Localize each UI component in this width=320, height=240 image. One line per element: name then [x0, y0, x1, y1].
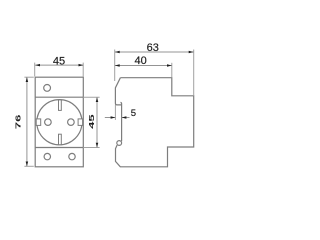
dimension line 76 [26, 77, 28, 166]
arrow 40 left [115, 64, 120, 67]
svg-text:63: 63 [147, 42, 159, 54]
arrow 45right up [96, 97, 99, 102]
side view front face upper edge [115, 78, 121, 105]
arrow 5 pointing right [111, 116, 116, 119]
socket recess circle [37, 100, 82, 145]
bottom terminal hole right [69, 153, 75, 159]
extension line 45top right [82, 63, 84, 77]
arrow 76 down [26, 162, 29, 167]
arrow 5 pointing left [122, 116, 127, 119]
earth slot top [59, 100, 62, 111]
extension line 40 right [171, 63, 173, 78]
dimension line 63 [115, 51, 194, 53]
bottom terminal hole left [44, 153, 50, 159]
arrow 63 right [189, 51, 194, 54]
side notch right [78, 119, 83, 126]
extension line 45top left [34, 63, 36, 77]
svg-text:76: 76 [15, 114, 22, 129]
arrow 45right down [96, 143, 99, 148]
svg-text:40: 40 [134, 55, 146, 67]
svg-text:5: 5 [131, 108, 136, 119]
pin hole left [45, 119, 52, 126]
extension line 63 left [114, 50, 116, 82]
front view body outline [35, 77, 83, 167]
DIN clip hook [117, 141, 122, 146]
arrow 63 left [115, 51, 120, 54]
dimension line 5 left part [105, 117, 116, 119]
arrow 45top right [79, 64, 84, 67]
dimension line 45 right [96, 97, 98, 147]
extension line 76 top [24, 76, 33, 78]
dimension line 45 top [35, 64, 83, 66]
side view body outline [116, 78, 194, 167]
front view upper partition line [35, 96, 83, 98]
extension line 76 bottom [24, 165, 33, 167]
extension line 45right lower [83, 147, 99, 149]
svg-text:45: 45 [89, 114, 96, 129]
arrow 45top left [35, 64, 40, 67]
extension line 45right upper [83, 96, 99, 98]
side view front lip edge [121, 102, 122, 141]
arrow 40 right [167, 64, 172, 67]
side notch left [36, 119, 41, 126]
svg-text:45: 45 [53, 56, 65, 68]
dimension line 40 [115, 65, 172, 67]
extension line 5 left [114, 105, 116, 120]
pin hole right [68, 119, 75, 126]
front view lower partition line [35, 147, 83, 149]
extension line 63 right [193, 50, 195, 96]
earth slot bottom [59, 134, 62, 145]
top mounting hole [44, 85, 51, 92]
arrow 76 up [26, 77, 29, 82]
dimension line 5 right part [122, 117, 130, 119]
